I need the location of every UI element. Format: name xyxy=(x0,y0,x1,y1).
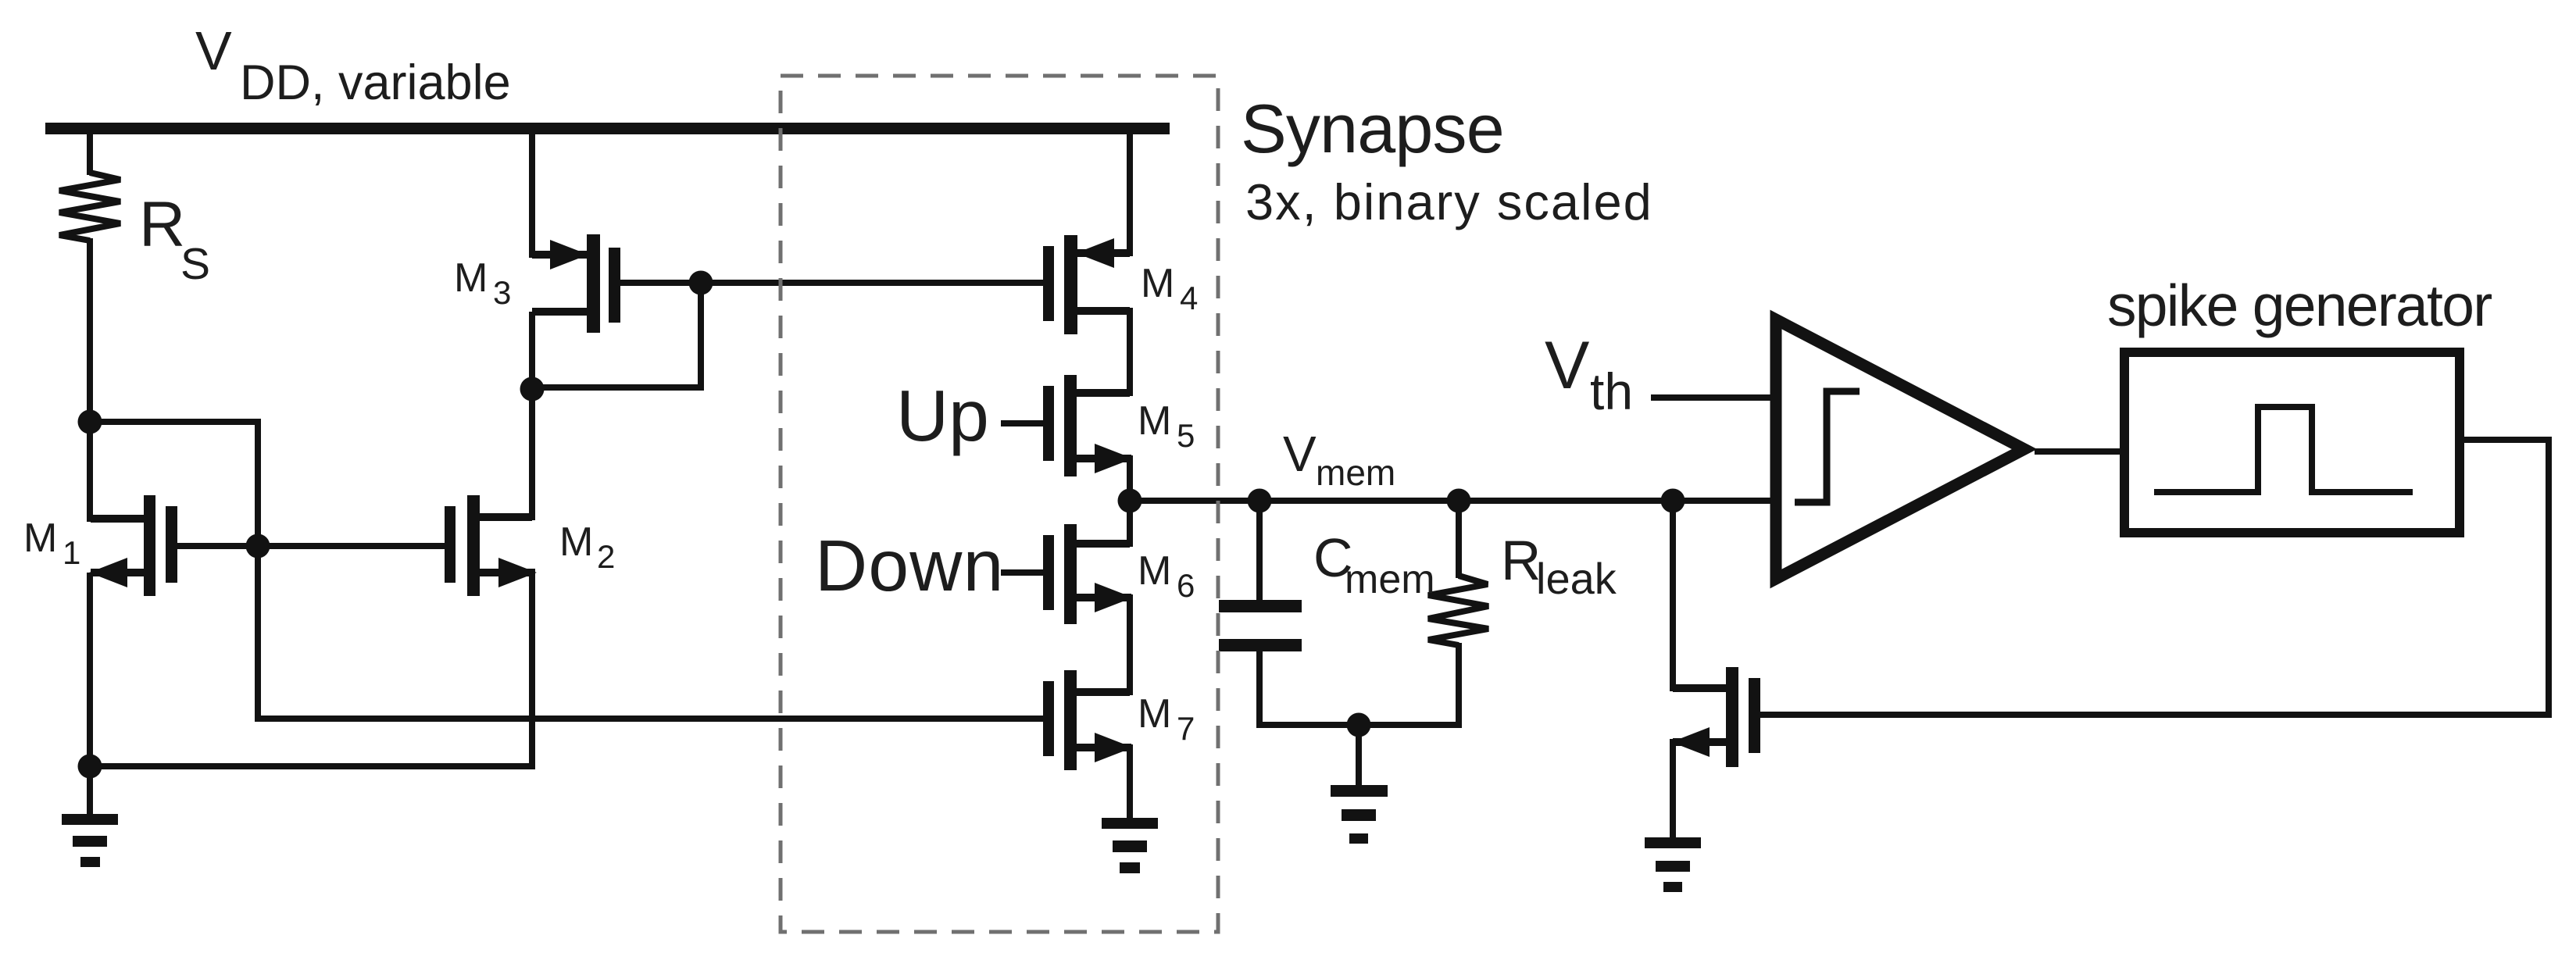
Synapse dashed box xyxy=(781,76,1218,932)
svg-text:DD, variable: DD, variable xyxy=(240,55,511,110)
transistor M3 xyxy=(532,234,620,333)
ground xyxy=(1645,837,1701,892)
resistor Rleak xyxy=(1428,576,1488,645)
svg-text:M: M xyxy=(1138,548,1171,594)
spike generator box xyxy=(2124,352,2460,533)
wire xyxy=(529,312,535,520)
wire spike generator output xyxy=(2461,437,2549,443)
wire xyxy=(255,716,1045,722)
wire xyxy=(1670,498,1676,691)
op-amp comparator U1 xyxy=(1776,319,2024,579)
wire xyxy=(1456,498,1462,578)
svg-text:2: 2 xyxy=(597,538,615,575)
wire xyxy=(1256,722,1462,728)
pulse symbol xyxy=(2154,407,2413,492)
wire xyxy=(529,384,701,391)
svg-text:M: M xyxy=(1138,398,1171,444)
transistor M2 xyxy=(445,495,537,596)
wire xyxy=(1456,643,1462,728)
wire xyxy=(1001,569,1045,576)
svg-text:M: M xyxy=(559,519,593,565)
svg-text:1: 1 xyxy=(63,534,80,571)
svg-text:S: S xyxy=(180,239,210,289)
svg-text:Up: Up xyxy=(896,375,989,456)
node VDD power rail xyxy=(45,123,1170,134)
svg-text:M: M xyxy=(1138,691,1171,737)
svg-text:Down: Down xyxy=(815,525,1005,606)
wire xyxy=(87,238,93,522)
wire xyxy=(87,573,93,769)
wire xyxy=(87,419,258,425)
wire feedback xyxy=(1759,712,2552,718)
wire xyxy=(1127,498,1133,547)
svg-text:V: V xyxy=(1283,426,1317,482)
transistor M6 xyxy=(1043,524,1133,624)
wire comparator output xyxy=(2035,448,2123,455)
svg-text:3x, binary scaled: 3x, binary scaled xyxy=(1245,173,1653,230)
wire xyxy=(255,419,261,719)
transistor M4 xyxy=(1043,235,1130,334)
wire xyxy=(1256,498,1263,601)
wire xyxy=(1356,722,1362,787)
svg-text:4: 4 xyxy=(1180,280,1198,316)
capacitor Cmem top plate xyxy=(1219,600,1302,612)
wire xyxy=(1127,308,1133,396)
svg-text:mem: mem xyxy=(1345,557,1435,602)
capacitor Cmem bottom plate xyxy=(1219,639,1302,651)
svg-text:M: M xyxy=(23,516,57,561)
wire xyxy=(1670,739,1676,840)
wire xyxy=(619,280,1045,286)
ground xyxy=(1331,785,1388,844)
transistor M7 xyxy=(1043,670,1133,770)
svg-text:R: R xyxy=(139,189,185,260)
svg-text:5: 5 xyxy=(1177,417,1195,454)
hysteresis symbol xyxy=(1795,391,1860,502)
wire xyxy=(87,763,532,769)
svg-text:spike generator: spike generator xyxy=(2107,273,2492,338)
ground xyxy=(1102,818,1158,873)
wire xyxy=(1127,455,1133,504)
wire xyxy=(1127,744,1133,820)
svg-text:3: 3 xyxy=(493,274,511,311)
transistor M5 xyxy=(1043,375,1133,476)
wire xyxy=(1127,133,1133,256)
wire xyxy=(2546,437,2552,715)
transistor Q-reset xyxy=(1671,667,1760,767)
wire Vth input xyxy=(1651,394,1775,401)
svg-text:V: V xyxy=(1545,328,1589,403)
svg-text:7: 7 xyxy=(1177,710,1195,747)
wire xyxy=(1256,650,1263,728)
svg-text:leak: leak xyxy=(1536,554,1617,603)
wire xyxy=(87,133,93,175)
transistor M1 xyxy=(89,495,177,596)
wire xyxy=(529,133,535,258)
node junction dots xyxy=(78,271,1685,779)
svg-text:V: V xyxy=(195,20,232,81)
wire xyxy=(176,543,447,549)
svg-text:Synapse: Synapse xyxy=(1241,90,1504,167)
wire xyxy=(87,766,93,817)
svg-text:R: R xyxy=(1501,530,1541,592)
ground xyxy=(62,814,118,867)
node Vmem wire xyxy=(1130,498,1774,504)
resistor RS xyxy=(59,173,120,241)
wire xyxy=(1127,594,1133,695)
svg-text:6: 6 xyxy=(1177,567,1195,604)
svg-text:M: M xyxy=(1141,261,1174,306)
svg-text:M: M xyxy=(454,255,488,301)
wire xyxy=(1001,420,1045,426)
svg-text:mem: mem xyxy=(1316,452,1395,493)
svg-text:th: th xyxy=(1590,362,1633,420)
wire xyxy=(529,573,535,769)
wire xyxy=(698,280,704,391)
